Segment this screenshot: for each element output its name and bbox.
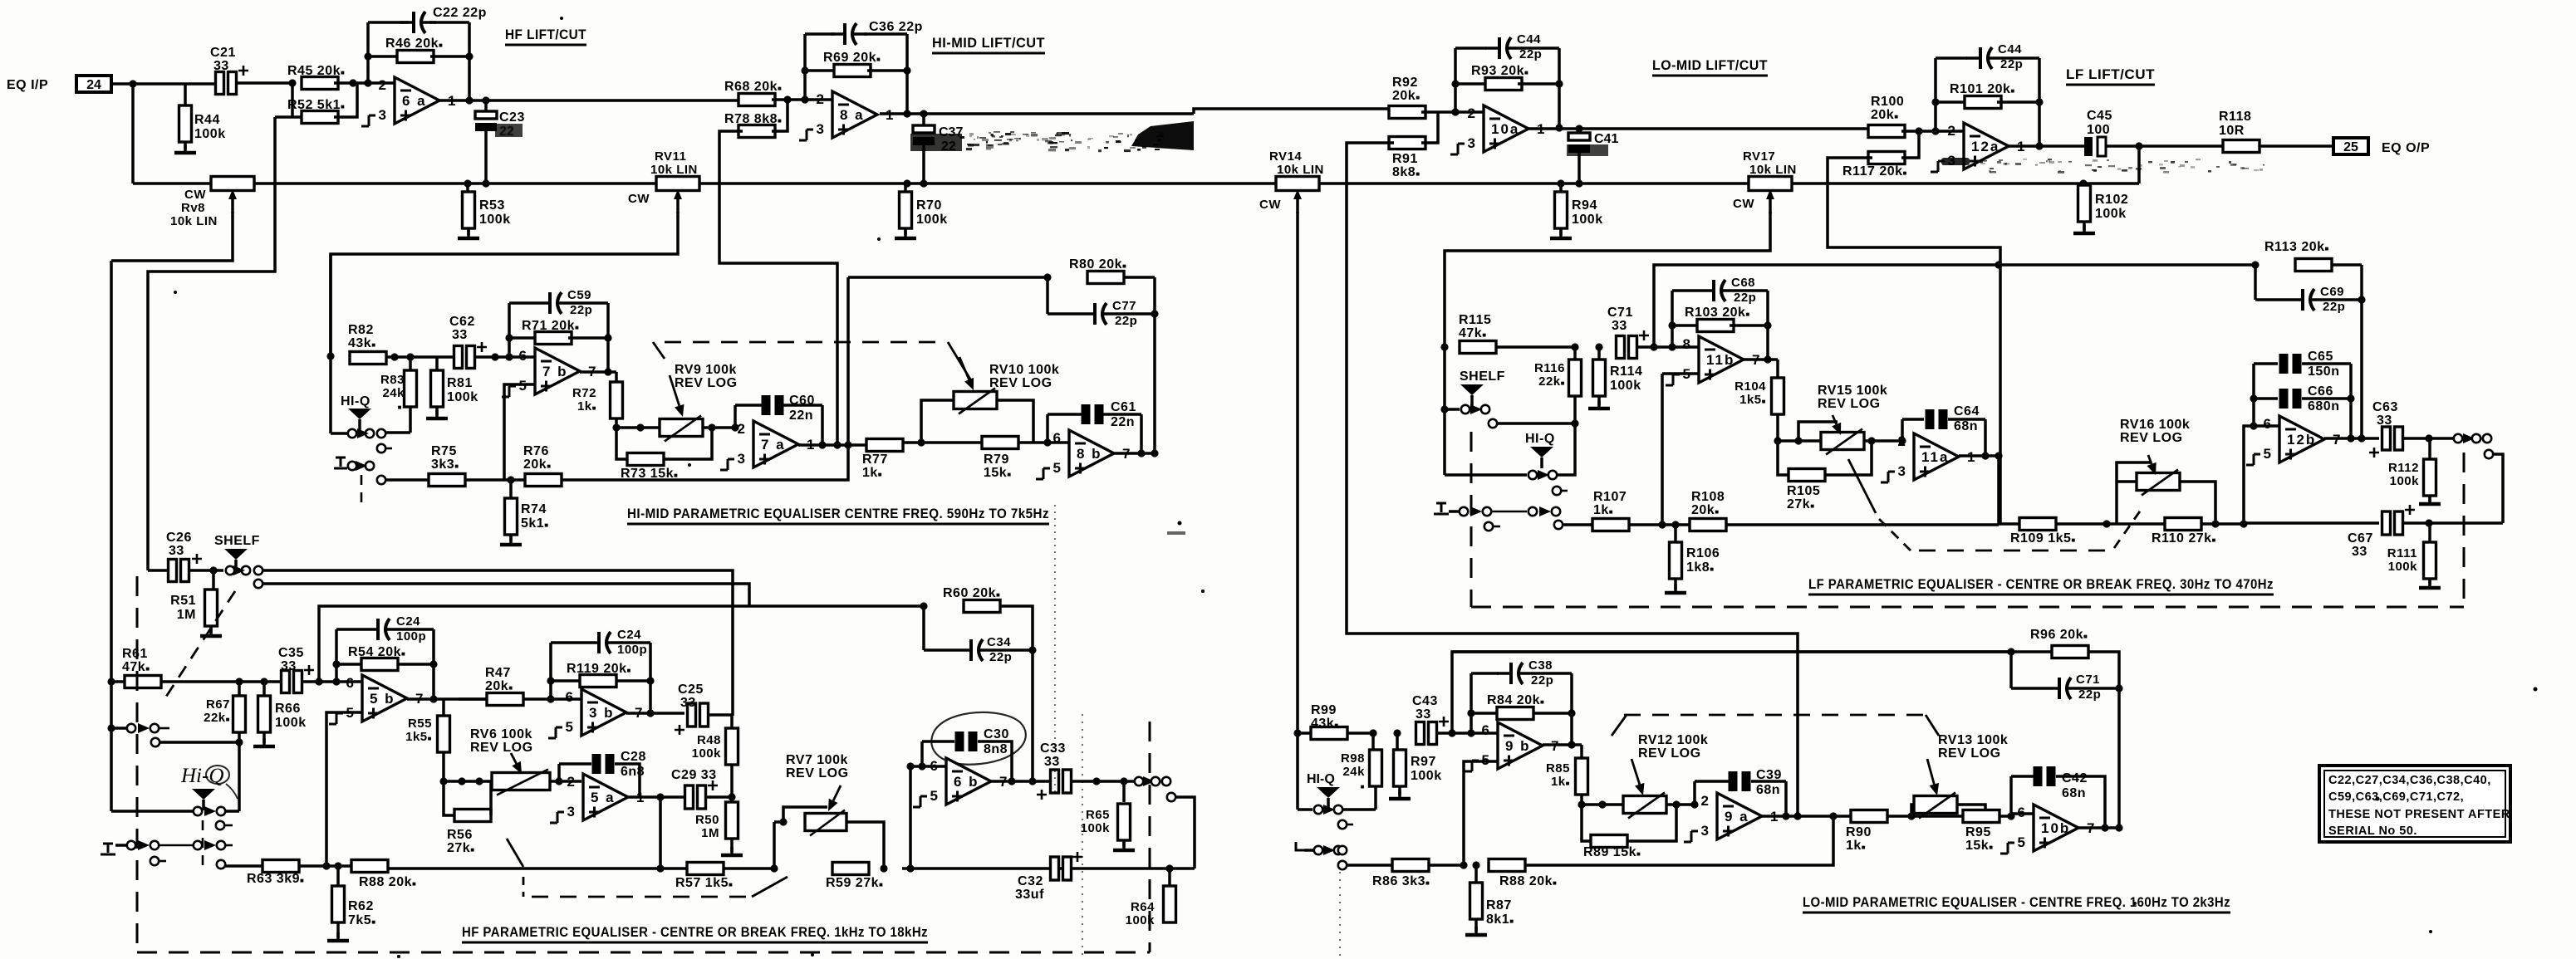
- svg-text:5 a: 5 a: [591, 790, 616, 805]
- svg-text:6: 6: [566, 689, 573, 705]
- svg-text:R51: R51: [170, 594, 196, 608]
- svg-text:RV7 100k: RV7 100k: [786, 753, 848, 767]
- svg-text:3: 3: [817, 121, 824, 137]
- svg-text:R94: R94: [1572, 198, 1597, 213]
- resistor R99: [1311, 727, 1347, 740]
- wire C69 left: [2254, 265, 2257, 300]
- svg-text:R64: R64: [1131, 900, 1155, 914]
- wire 8b feedback C61: [1046, 414, 1049, 443]
- svg-text:10R: 10R: [2219, 124, 2245, 138]
- svg-text:Rv8: Rv8: [181, 201, 205, 215]
- wire 8b output: [1114, 452, 1155, 455]
- svg-text:R108: R108: [1691, 490, 1725, 504]
- svg-text:SERIAL No 50.: SERIAL No 50.: [2328, 824, 2417, 838]
- resistor R51: [205, 590, 218, 626]
- wire R116 column: [1573, 347, 1577, 360]
- wire RV11 wiper drop to hi-mid input: [331, 212, 678, 356]
- svg-text:C35: C35: [278, 646, 304, 660]
- op-amp U3b: [548, 689, 642, 738]
- svg-text:REV LOG: REV LOG: [675, 376, 738, 390]
- svg-text:8 a: 8 a: [840, 107, 865, 123]
- svg-text:100: 100: [2087, 123, 2110, 137]
- svg-text:R53: R53: [479, 198, 505, 213]
- svg-text:CW: CW: [1259, 198, 1281, 212]
- svg-text:R63 3k9■: R63 3k9■: [247, 872, 304, 886]
- svg-text:R114: R114: [1610, 365, 1642, 379]
- resistor R74: [505, 498, 518, 535]
- svg-text:68n: 68n: [1954, 419, 1978, 433]
- wire 5a out down to bus: [659, 797, 662, 868]
- svg-text:R102: R102: [2095, 193, 2128, 207]
- svg-text:150n: 150n: [2308, 365, 2339, 379]
- svg-text:R96 20k■: R96 20k■: [2030, 628, 2088, 642]
- op-amp U12b: [2246, 416, 2340, 465]
- wire 11b feedback left column: [1671, 291, 1674, 347]
- svg-text:24k: 24k: [382, 386, 405, 400]
- resistor R86: [1392, 859, 1429, 872]
- svg-text:C77: C77: [1112, 299, 1136, 313]
- resistor R100: [1868, 125, 1905, 138]
- wire R97 column: [1396, 733, 1399, 750]
- svg-text:C43: C43: [1412, 694, 1438, 708]
- capacitor C38 22p: [1497, 663, 1533, 684]
- svg-text:R99: R99: [1311, 703, 1337, 717]
- feedback R80/C77 hi-mid: [848, 276, 1048, 279]
- resistor R76: [525, 474, 562, 487]
- capacitor C29: [685, 780, 719, 809]
- svg-text:RV15 100k: RV15 100k: [1818, 384, 1887, 398]
- svg-text:R118: R118: [2219, 110, 2251, 124]
- wire R114 column: [1597, 347, 1601, 360]
- wire 9b feedback left column: [1470, 673, 1473, 733]
- svg-text:2: 2: [817, 91, 824, 107]
- svg-text:RV6 100k: RV6 100k: [470, 727, 532, 741]
- svg-text:C67: C67: [2348, 531, 2373, 546]
- svg-text:C24: C24: [617, 628, 641, 642]
- wiper arrow RV16: [2147, 455, 2156, 475]
- switch contact: [1484, 522, 1493, 531]
- capacitor C44 22p: [1485, 37, 1522, 59]
- svg-text:R119 20k■: R119 20k■: [567, 662, 631, 676]
- dashed box LF bottom: [1471, 606, 2464, 609]
- svg-text:2: 2: [1898, 433, 1906, 449]
- wire 5b feedback left column: [335, 629, 338, 682]
- svg-text:EQ O/P: EQ O/P: [2382, 141, 2430, 155]
- svg-text:C26: C26: [166, 531, 192, 545]
- resistor R73: [627, 453, 664, 466]
- svg-text:R45 20k■: R45 20k■: [287, 64, 345, 78]
- svg-text:CW: CW: [1733, 197, 1754, 211]
- loop RV16 wiper tie: [2117, 462, 2152, 482]
- svg-text:3: 3: [1701, 823, 1709, 839]
- handwritten circle annotation around C30: [931, 712, 1026, 765]
- wire C37 to bus: [922, 143, 925, 183]
- svg-text:R101 20k■: R101 20k■: [1950, 82, 2015, 96]
- svg-text:R95: R95: [1965, 825, 1991, 839]
- scan artifact speckles near 12a: [1941, 158, 2264, 174]
- wire 6b feedback C30: [920, 741, 924, 766]
- wire 7a output: [798, 443, 870, 447]
- wire bus R88 to R57: [388, 867, 687, 870]
- wire 10a output line: [1527, 127, 1872, 130]
- resistor R47: [487, 693, 523, 706]
- svg-text:REV LOG: REV LOG: [1638, 746, 1701, 761]
- op-amp U9a: [1684, 793, 1778, 842]
- wire C45 to R118: [2106, 144, 2224, 148]
- wire R55 column: [442, 699, 445, 716]
- resistor R94: [1555, 192, 1568, 228]
- resistor R66: [258, 696, 271, 732]
- connector 24 EQ input: [76, 76, 111, 92]
- switch contact: [150, 857, 159, 865]
- wire feedback left column 6a: [366, 22, 370, 83]
- capacitor C60 22n: [762, 395, 784, 415]
- svg-text:100k: 100k: [479, 213, 511, 227]
- wire R108 right to 11a out column: [1726, 523, 1999, 526]
- capacitor C30 8n8: [955, 731, 978, 751]
- wire 11a out column to bus: [1997, 456, 2000, 524]
- resistor R72: [611, 382, 623, 418]
- resistor R88 (lo-mid): [1489, 859, 1525, 872]
- svg-text:RV11: RV11: [655, 149, 686, 164]
- wire R76 right to 7a output column: [562, 445, 848, 480]
- capacitor C45: [2084, 137, 2106, 156]
- svg-text:9 a: 9 a: [1725, 809, 1749, 824]
- wire R47 row 5b out to 3b: [459, 697, 487, 701]
- wire feedback left column 12a: [1934, 58, 1937, 131]
- wire LF input node: [1440, 343, 1448, 350]
- wire 11b output to R104: [1744, 358, 1778, 361]
- wire R45/R52 left link: [291, 83, 294, 117]
- capacitor C61 22n: [1082, 404, 1104, 424]
- svg-text:REV LOG: REV LOG: [1818, 397, 1881, 411]
- resistor R57: [687, 863, 724, 875]
- svg-text:5: 5: [2264, 446, 2271, 462]
- svg-text:100k: 100k: [2390, 474, 2420, 488]
- svg-text:100k: 100k: [1572, 213, 1603, 227]
- resistor R78: [738, 125, 775, 138]
- wire 8a out jog to R92: [1194, 109, 1394, 114]
- wiper arrow RV12: [1631, 759, 1644, 795]
- svg-text:C34: C34: [987, 635, 1011, 649]
- wiper arrow RV13: [1927, 759, 1939, 795]
- resistor R71: [535, 332, 572, 345]
- resistor R115: [1460, 341, 1496, 354]
- ground R114: [1588, 400, 1610, 409]
- ground R106: [1665, 585, 1686, 593]
- junction input node: [129, 80, 136, 87]
- resistor R81: [431, 370, 444, 407]
- wire R68 to 8a: [772, 98, 832, 101]
- svg-text:C61: C61: [1111, 400, 1136, 414]
- wire C23 to bus: [484, 131, 488, 183]
- svg-text:SHELF: SHELF: [1460, 369, 1505, 384]
- capacitor C64 68n: [1926, 409, 1948, 429]
- svg-text:LF PARAMETRIC EQUALISER - CENT: LF PARAMETRIC EQUALISER - CENTRE OR BREA…: [1808, 576, 2274, 592]
- svg-text:9 b: 9 b: [1505, 738, 1531, 754]
- wire to C22: [368, 21, 409, 24]
- resistor R116: [1569, 360, 1582, 396]
- svg-text:R68 20k■: R68 20k■: [724, 80, 782, 94]
- wire 3b feedback right column: [649, 643, 652, 713]
- resistor R69: [834, 65, 871, 77]
- svg-text:HF PARAMETRIC EQUALISER - CENT: HF PARAMETRIC EQUALISER - CENTRE OR BREA…: [462, 924, 928, 940]
- svg-text:HI-Q: HI-Q: [1525, 432, 1555, 446]
- wire 7a out up to R80 line: [846, 277, 850, 445]
- capacitor C23: [475, 111, 497, 131]
- resistor R102: [2078, 185, 2091, 222]
- potentiometer RV14 10k LIN: [1276, 177, 1319, 214]
- resistor R79: [982, 437, 1018, 449]
- wire 9a feedback C39: [1690, 800, 1698, 808]
- resistor R61: [125, 676, 161, 688]
- svg-text:33: 33: [2352, 545, 2367, 559]
- capacitor C37: [913, 125, 935, 145]
- resistor R106: [1670, 542, 1682, 579]
- svg-text:100k: 100k: [1610, 379, 1641, 393]
- svg-text:R83: R83: [380, 373, 405, 387]
- svg-text:12a: 12a: [1971, 139, 1999, 154]
- svg-text:R81: R81: [447, 376, 473, 390]
- resistor R44: [179, 105, 192, 142]
- wire R62 column: [336, 866, 340, 886]
- gang dashes LF pots: [1848, 459, 1876, 513]
- scan artifact dotted vertical lines: [1055, 505, 1340, 959]
- wire RV17 wiper drop to LF input: [1445, 212, 1770, 347]
- ground R87: [1465, 927, 1487, 935]
- wire 11b pin5 column: [1662, 372, 1699, 375]
- resistor R82: [350, 352, 386, 365]
- wire R65 column: [1122, 781, 1126, 802]
- wire C77 left: [1046, 277, 1049, 314]
- wire 12b pin5 column: [2244, 426, 2279, 524]
- svg-text:C44: C44: [1998, 42, 2022, 56]
- svg-text:R104: R104: [1735, 379, 1766, 394]
- wire 11a feedback C64: [1901, 419, 1904, 441]
- svg-text:R61: R61: [122, 647, 148, 661]
- svg-text:100k: 100k: [2388, 560, 2418, 574]
- svg-text:C30: C30: [984, 727, 1009, 741]
- svg-text:12b: 12b: [2287, 432, 2316, 448]
- resistor R88: [351, 860, 388, 873]
- resistor R93: [1485, 78, 1522, 91]
- svg-text:R59 27k■: R59 27k■: [826, 876, 883, 890]
- svg-text:C23: C23: [499, 110, 525, 125]
- svg-text:RV10 100k: RV10 100k: [989, 363, 1059, 377]
- wire hi-q bracket: [111, 810, 193, 813]
- svg-text:R60 20k■: R60 20k■: [943, 586, 1000, 600]
- svg-text:RV9 100k: RV9 100k: [675, 363, 737, 377]
- resistor R107: [1592, 519, 1629, 531]
- wire R83 bottom to switch row: [409, 407, 412, 433]
- dashed box HF bottom: [137, 952, 1150, 954]
- svg-text:1M: 1M: [701, 826, 719, 840]
- svg-text:R91: R91: [1392, 152, 1418, 166]
- resistor R56: [454, 810, 491, 822]
- resistor R96: [2052, 646, 2088, 658]
- capacitor C33: [1037, 770, 1072, 800]
- svg-text:R77: R77: [862, 453, 888, 467]
- wire input to junction: [111, 82, 133, 86]
- resistor R89: [1591, 835, 1627, 848]
- svg-text:R69 20k■: R69 20k■: [823, 51, 881, 65]
- wire LF lower bus: [1999, 522, 2019, 526]
- svg-text:R87: R87: [1486, 898, 1512, 913]
- wire R113/C69 column down to 12b out: [2360, 300, 2363, 438]
- svg-text:R76: R76: [523, 444, 549, 458]
- svg-text:22p: 22p: [1734, 291, 1756, 305]
- svg-text:R48: R48: [697, 733, 721, 747]
- svg-text:R65: R65: [1086, 808, 1110, 822]
- feedback R113/C69 LF: [2251, 261, 2259, 268]
- wire RV9 row: [616, 426, 660, 429]
- wire R78 left down to hi-mid output: [719, 131, 837, 445]
- ground R111: [2419, 580, 2441, 588]
- capacitor C22 22p: [400, 12, 436, 33]
- wire R96 right column: [2088, 652, 2119, 828]
- svg-text:22p: 22p: [989, 650, 1012, 664]
- wire 5a feedback C28: [559, 762, 591, 766]
- op-amp U11b: [1666, 336, 1759, 385]
- svg-text:C29 33: C29 33: [671, 768, 717, 782]
- op-amp U5a: [550, 774, 644, 823]
- svg-text:R113 20k■: R113 20k■: [2264, 240, 2329, 254]
- svg-text:R116: R116: [1534, 361, 1565, 375]
- switch HI-Q LF: [1530, 447, 1553, 468]
- resistor R67: [233, 696, 246, 732]
- svg-text:22p: 22p: [1531, 673, 1553, 687]
- wire HF input node: [107, 678, 115, 685]
- wire R87 column: [1474, 865, 1478, 883]
- svg-text:R55: R55: [408, 717, 432, 731]
- wire bus to 9a out column: [1525, 816, 1833, 865]
- loop RV15 wiper tie: [1798, 422, 1838, 441]
- dashed box LF left: [1470, 432, 1473, 607]
- svg-text:2: 2: [379, 77, 386, 93]
- svg-text:6: 6: [1053, 430, 1061, 446]
- wire R112 column: [2428, 438, 2431, 459]
- wire R72 bottom: [615, 418, 618, 428]
- potentiometer RV17 10k LIN: [1749, 177, 1792, 214]
- svg-text:2: 2: [1468, 105, 1475, 121]
- svg-text:100k: 100k: [1411, 769, 1442, 783]
- svg-text:5: 5: [930, 788, 938, 804]
- wire R117 left down to LF chain: [1828, 158, 2000, 524]
- wire C62 to pin6: [474, 355, 509, 359]
- svg-text:R46 20k■: R46 20k■: [385, 37, 443, 51]
- svg-text:3: 3: [1898, 463, 1906, 479]
- svg-text:33: 33: [281, 659, 297, 673]
- capacitor C41: [1568, 133, 1590, 153]
- svg-text:2: 2: [1948, 123, 1955, 139]
- svg-text:6: 6: [519, 348, 527, 364]
- ground R81: [426, 410, 448, 418]
- svg-text:C36 22p: C36 22p: [869, 20, 923, 34]
- svg-text:R90: R90: [1846, 825, 1872, 839]
- wire 12b output row: [2324, 437, 2379, 440]
- svg-text:100k: 100k: [2095, 207, 2127, 221]
- svg-text:25: 25: [2343, 140, 2358, 154]
- capacitor C67: [2382, 505, 2416, 535]
- switch SHELF LF: [1460, 384, 1484, 406]
- wire lo-mid lower bus: [1338, 861, 1347, 869]
- svg-text:CW: CW: [628, 192, 650, 206]
- resistor R113: [2295, 259, 2332, 272]
- svg-text:33: 33: [2377, 413, 2392, 428]
- capacitor C24 100p (3b): [585, 632, 621, 653]
- switch SHELF HF: [224, 549, 248, 570]
- svg-text:R92: R92: [1392, 76, 1418, 90]
- resistor R87: [1470, 883, 1483, 919]
- capacitor C63: [2369, 427, 2403, 457]
- svg-text:R70: R70: [916, 198, 942, 213]
- wire R52 right up to inv input: [334, 83, 357, 117]
- switch contact LF lower: [2485, 450, 2493, 458]
- wire LF bypass to lower row: [2493, 454, 2503, 523]
- potentiometer RV13 100k REV LOG: [1914, 793, 1957, 819]
- svg-text:11b: 11b: [1706, 352, 1735, 368]
- svg-text:C32: C32: [1018, 874, 1043, 888]
- wire feedback right column 6a: [468, 22, 471, 100]
- resistor R70: [900, 192, 912, 228]
- svg-text:3: 3: [567, 804, 575, 820]
- wire R82 to C62 node: [386, 355, 453, 359]
- svg-text:7 a: 7 a: [761, 437, 786, 453]
- svg-text:R106: R106: [1686, 546, 1720, 560]
- svg-text:24: 24: [86, 78, 101, 92]
- wire input node down to CM bus: [131, 84, 135, 183]
- svg-text:R112: R112: [2388, 461, 2419, 475]
- wire bus to C67: [2244, 521, 2379, 525]
- svg-text:3: 3: [1468, 135, 1475, 151]
- svg-text:RV17: RV17: [1743, 149, 1775, 164]
- svg-text:2: 2: [1701, 793, 1709, 809]
- svg-text:R82: R82: [348, 323, 374, 337]
- svg-text:C41: C41: [1594, 132, 1618, 146]
- svg-text:R110 27k■: R110 27k■: [2152, 531, 2216, 546]
- svg-text:R67: R67: [206, 697, 230, 712]
- wire R81 top: [435, 357, 439, 370]
- wire R52 node down to C26: [148, 117, 275, 561]
- svg-text:22n: 22n: [789, 409, 813, 423]
- svg-text:R66: R66: [275, 702, 301, 716]
- wiper arrow RV6: [511, 753, 522, 774]
- svg-text:1M: 1M: [177, 608, 196, 622]
- svg-text:R88 20k■: R88 20k■: [1499, 874, 1557, 888]
- wire shelf line 1 to C25 column: [263, 570, 733, 716]
- ground R70: [895, 230, 916, 238]
- ground R74: [500, 536, 522, 545]
- svg-text:33: 33: [1612, 319, 1627, 333]
- wire R91 right up to inv input: [1421, 112, 1438, 143]
- wire R74 column: [509, 480, 513, 498]
- wire RV7 left column: [773, 822, 776, 868]
- svg-text:6: 6: [2018, 805, 2025, 820]
- svg-text:R115: R115: [1459, 313, 1491, 327]
- wiper arrow RV10: [959, 357, 974, 390]
- switch contact shelf 2: [254, 580, 263, 588]
- loop resistor R89 parallel RV12: [1582, 805, 1591, 841]
- dashed box HF right: [1149, 722, 1151, 952]
- resistor R101: [1965, 96, 2001, 109]
- wire 8a output line: [880, 112, 1194, 115]
- ground R94: [1550, 230, 1572, 238]
- wire 9a output row: [1762, 815, 1851, 818]
- wire CM common bus: [133, 182, 2139, 185]
- op-amp U5b: [329, 675, 423, 724]
- resistor R80: [1087, 272, 1124, 284]
- wire 11b feedback right column: [1766, 291, 1769, 360]
